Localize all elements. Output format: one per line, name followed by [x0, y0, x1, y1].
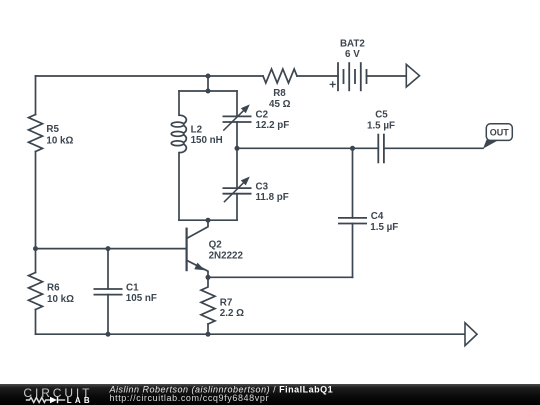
resistor R5 [29, 115, 43, 152]
svg-text:10 kΩ: 10 kΩ [46, 136, 73, 147]
svg-text:R6: R6 [47, 283, 60, 294]
node top rail / tank branch [206, 74, 211, 79]
wire battery to top flag [367, 75, 407, 77]
svg-text:R8: R8 [273, 88, 286, 99]
capacitor C2 arrow [223, 104, 250, 130]
wire L2 bottom lead [178, 153, 180, 221]
svg-text:1.5 µF: 1.5 µF [367, 120, 395, 131]
wire R7 bottom lead [207, 324, 209, 334]
node flag bottom right [465, 323, 477, 346]
wire C5 to OUT [384, 147, 483, 149]
capacitor C3 arrow [224, 177, 250, 203]
resistor R7 [201, 277, 215, 324]
capacitor C3 plates [223, 188, 252, 194]
capacitor C5 plates [378, 134, 384, 164]
wire C1 top lead [107, 249, 109, 289]
svg-text:R7: R7 [220, 298, 233, 309]
svg-text:http://circuitlab.com/ccq9fy68: http://circuitlab.com/ccq9fy6848vpr [110, 393, 270, 403]
node C4 top [350, 146, 355, 151]
svg-text:10 kΩ: 10 kΩ [47, 294, 74, 305]
wire C2 top lead [236, 91, 238, 116]
resistor R6 [29, 273, 43, 310]
svg-text:L2: L2 [191, 124, 203, 135]
svg-text:R5: R5 [46, 124, 59, 135]
node R7 bottom [206, 332, 211, 337]
wire C1 bottom lead [107, 295, 109, 335]
svg-text:12.2 pF: 12.2 pF [256, 120, 290, 131]
node tank mid / output [235, 146, 240, 151]
svg-text:C3: C3 [256, 182, 269, 193]
wire LC bottom rail [179, 219, 237, 221]
svg-text:2N2222: 2N2222 [209, 250, 244, 261]
battery BAT2 [338, 62, 367, 91]
wire tank to C5 [237, 147, 378, 149]
svg-text:11.8 pF: 11.8 pF [256, 192, 289, 203]
wire collector [187, 220, 208, 238]
wire battery to R8 [297, 75, 338, 77]
wire left vertical top [35, 76, 37, 115]
OUT flag box [486, 124, 512, 141]
wire branch top to LC tank [207, 76, 209, 91]
OUT flag pointer [483, 140, 498, 149]
svg-text:150 nH: 150 nH [191, 135, 223, 146]
transistor Q2 base bar [186, 228, 188, 272]
wire C3 bottom lead [236, 194, 238, 221]
node flag top right [406, 64, 419, 87]
node base left [33, 246, 38, 251]
node collector [206, 218, 211, 223]
resistor R8 [263, 69, 297, 83]
wire C2 to C3 [236, 122, 238, 188]
capacitor C1 plates [94, 289, 123, 295]
svg-text:BAT2: BAT2 [340, 39, 365, 50]
inductor L2 [171, 115, 186, 152]
node tank top [206, 89, 211, 94]
wire left vertical bottom [35, 310, 37, 335]
wire emitter lead [187, 260, 208, 277]
node C1 top [106, 246, 111, 251]
transistor Q2 emitter arrowhead [194, 263, 205, 271]
svg-text:1.5 µF: 1.5 µF [370, 222, 398, 233]
svg-text:Q2: Q2 [209, 240, 223, 251]
svg-text:105 nF: 105 nF [126, 293, 157, 304]
wire left vertical mid [35, 152, 37, 273]
wire L2 top lead [178, 91, 180, 115]
node emitter [206, 275, 211, 280]
wire base [36, 248, 187, 250]
logo diode [50, 397, 57, 403]
wire bottom rail [36, 333, 466, 335]
svg-text:C2: C2 [256, 110, 269, 121]
svg-text:2.2 Ω: 2.2 Ω [220, 308, 244, 319]
svg-text:LAB: LAB [67, 396, 93, 405]
node C1 bottom [106, 332, 111, 337]
wire C4 bottom lead [352, 224, 354, 278]
svg-text:C4: C4 [371, 211, 384, 222]
wire C4 top lead [352, 148, 354, 218]
wire C4 to emitter node [208, 276, 353, 278]
wire LC top rail [179, 90, 237, 92]
capacitor C4 plates [338, 218, 367, 224]
battery plus sign [330, 81, 336, 87]
svg-text:6 V: 6 V [345, 49, 360, 60]
svg-text:45 Ω: 45 Ω [269, 99, 291, 110]
svg-text:OUT: OUT [490, 128, 510, 138]
wire top rail left [36, 75, 264, 77]
capacitor C2 plates [223, 116, 252, 122]
logo resistor zigzag [26, 398, 50, 403]
svg-text:C5: C5 [375, 110, 388, 121]
